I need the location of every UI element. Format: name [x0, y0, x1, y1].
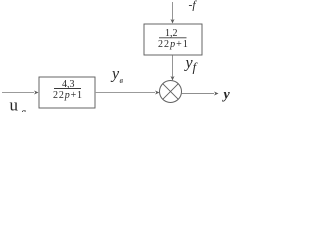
label u_в	[10, 96, 27, 119]
svg-text:f: f	[193, 60, 199, 75]
wire: input u into block W1	[2, 91, 39, 95]
wire: summer output to y	[182, 92, 219, 96]
block W2 (1,2/(22p+1))	[144, 24, 202, 55]
svg-text:22p+1: 22p+1	[53, 90, 83, 101]
svg-text:y: y	[110, 66, 120, 83]
svg-text:-f: -f	[189, 0, 198, 12]
block W1 (4,3/(22p+1))	[39, 77, 95, 108]
label y_в (W1 output)	[110, 66, 124, 86]
label y (output)	[222, 88, 231, 103]
label -f	[189, 0, 198, 12]
svg-text:u: u	[10, 96, 19, 113]
svg-text:в: в	[120, 76, 124, 85]
wire: W2 output down to summer	[171, 56, 175, 81]
svg-text:y: y	[222, 88, 231, 103]
svg-text:22p+1: 22p+1	[158, 39, 189, 50]
wire: f input into block W2	[171, 2, 175, 24]
wire: W1 output to summer	[95, 91, 160, 95]
label y_f	[184, 55, 199, 75]
svg-text:в: в	[22, 107, 27, 112]
summing junction (circle with X)	[160, 81, 182, 103]
